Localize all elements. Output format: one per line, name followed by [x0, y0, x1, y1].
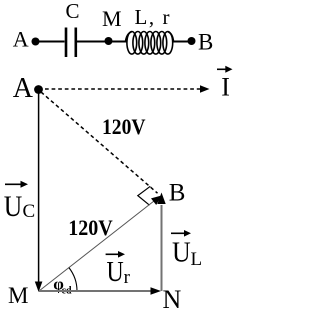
label M (circuit): [102, 6, 122, 31]
right angle mark at B: [138, 186, 151, 205]
svg-text:C: C: [66, 0, 80, 23]
svg-text:B: B: [169, 179, 186, 206]
angle label phi_cd: [53, 275, 72, 297]
node label A (circuit): [13, 26, 29, 51]
label 120V (lower, U_MB): [68, 215, 113, 240]
wire M to inductor: [109, 41, 128, 43]
inductor L,r coil: [126, 32, 174, 55]
svg-text:M: M: [102, 6, 122, 31]
label U_C with vector arrow: [4, 181, 35, 223]
node label B (circuit): [198, 30, 213, 55]
label C: [66, 0, 80, 23]
svg-text:U: U: [107, 257, 124, 288]
dashed current axis A to I: [45, 85, 210, 93]
svg-text:A: A: [13, 26, 29, 51]
node B terminal dot: [188, 37, 196, 45]
svg-text:C: C: [23, 201, 36, 222]
phasor U_r from M to N: [39, 287, 161, 295]
angle arc phi_cd at M: [69, 268, 77, 291]
svg-text:120V: 120V: [102, 114, 146, 139]
label 120V (upper, U_AB): [102, 114, 146, 139]
wire A to capacitor: [36, 41, 65, 43]
phasor U_MB from M to B: [39, 196, 162, 292]
node A phasor dot: [34, 85, 43, 94]
svg-text:I: I: [221, 73, 230, 102]
svg-text:L: L: [191, 249, 203, 270]
node A terminal dot: [32, 38, 40, 46]
node M terminal dot: [105, 37, 113, 45]
wire capacitor to M: [77, 41, 108, 43]
label U_L with vector arrow: [171, 230, 202, 270]
phasor U_C from A down to M: [35, 94, 43, 293]
node label A (phasor): [13, 73, 34, 104]
wire inductor to B: [173, 41, 192, 43]
svg-text:L, r: L, r: [135, 5, 170, 29]
label U_r with vector arrow: [106, 251, 131, 288]
dashed phasor U_AB from A to B: [41, 92, 158, 193]
svg-text:U: U: [172, 238, 191, 269]
svg-text:N: N: [163, 285, 182, 314]
current vector label I: [217, 66, 233, 102]
svg-text:r: r: [124, 267, 131, 288]
node label N: [163, 285, 182, 314]
svg-text:120V: 120V: [68, 215, 113, 240]
svg-text:U: U: [4, 190, 23, 223]
svg-text:A: A: [13, 73, 34, 104]
node label M (phasor): [8, 283, 28, 308]
label L, r: [135, 5, 170, 29]
svg-text:B: B: [198, 30, 213, 55]
capacitor C: [66, 28, 76, 58]
svg-text:M: M: [8, 283, 28, 308]
phasor U_L from N up to B: [157, 193, 165, 292]
node label B (phasor): [169, 179, 186, 206]
